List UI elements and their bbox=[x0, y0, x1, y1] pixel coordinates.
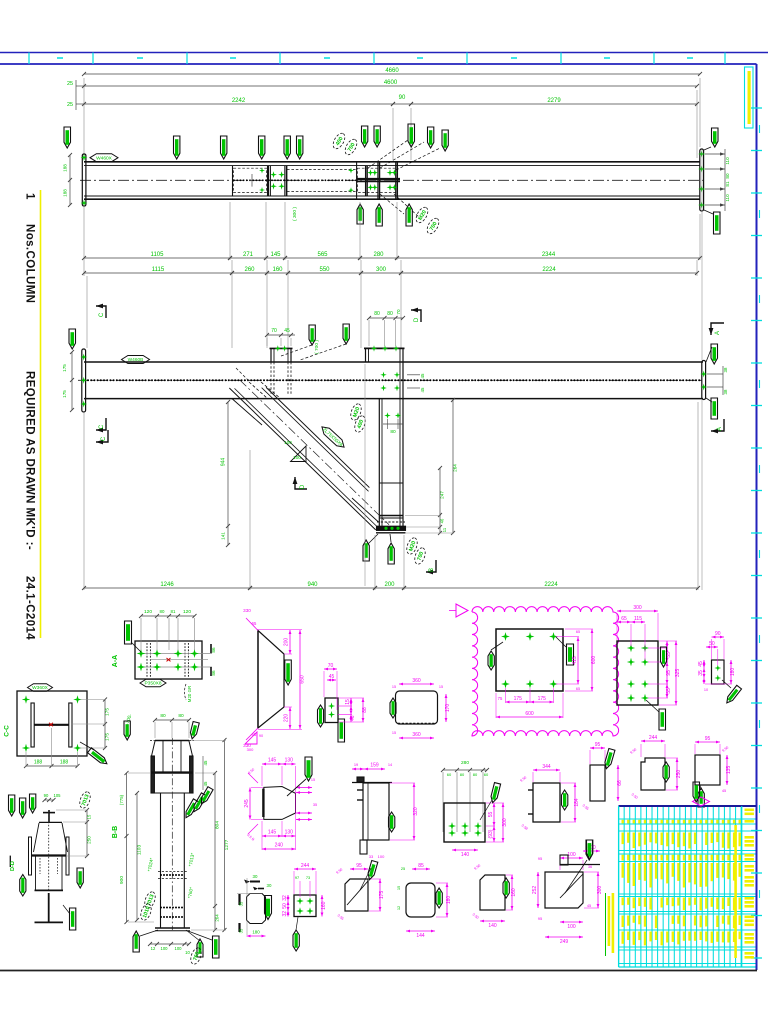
view2 beam centerline with bolts bbox=[78, 379, 706, 381]
detail A-A right dims 86 86 bbox=[210, 644, 212, 653]
svg-text:45: 45 bbox=[329, 674, 335, 680]
detail small plate flag bbox=[698, 788, 704, 807]
svg-text:35: 35 bbox=[313, 803, 317, 807]
svg-text:2224: 2224 bbox=[542, 267, 556, 273]
svg-text:900: 900 bbox=[119, 876, 125, 884]
svg-text:55: 55 bbox=[666, 688, 672, 694]
svg-text:80: 80 bbox=[374, 311, 380, 317]
svg-text:110: 110 bbox=[725, 157, 730, 165]
svg-text:600: 600 bbox=[525, 711, 534, 717]
view1 zone C leader dashed lines bbox=[368, 140, 408, 168]
svg-text:2344: 2344 bbox=[542, 252, 556, 258]
svg-text:80: 80 bbox=[390, 429, 396, 435]
view2 brace balloon bbox=[319, 424, 347, 450]
view2 stub2 column top bbox=[365, 348, 367, 362]
view1 bottom dim row1 bbox=[83, 205, 85, 260]
svg-text:( 700 ): ( 700 ) bbox=[314, 340, 320, 354]
svg-text:(775): (775) bbox=[119, 794, 124, 805]
detail BB right dims 15 250 bbox=[86, 810, 88, 856]
svg-text:60: 60 bbox=[484, 772, 489, 777]
svg-text:65: 65 bbox=[576, 687, 580, 691]
svg-text:100: 100 bbox=[161, 946, 169, 951]
view1 bottom dim row2 bbox=[83, 260, 85, 276]
svg-text:360: 360 bbox=[412, 732, 421, 738]
view2 column bolts near centerline bbox=[380, 372, 386, 378]
svg-text:264: 264 bbox=[215, 914, 220, 922]
view2 column base leaders and flags bbox=[368, 534, 378, 544]
svg-text:550: 550 bbox=[319, 267, 330, 273]
detail BB flags right bbox=[77, 868, 83, 888]
svg-text:P350X8: P350X8 bbox=[144, 681, 161, 687]
detail base plan flag bbox=[490, 783, 501, 804]
svg-text:145: 145 bbox=[268, 830, 277, 836]
svg-text:100: 100 bbox=[567, 924, 576, 930]
detail C-C balloon bbox=[28, 684, 53, 692]
svg-text:100: 100 bbox=[567, 852, 576, 858]
detail small plate right bbox=[695, 755, 720, 785]
detail C-C bottom dims 188 188 bbox=[26, 765, 78, 767]
view2 right end dims 38 38 bbox=[707, 373, 723, 375]
detail C-C flag diagonal bbox=[88, 748, 109, 767]
detail clip dims bbox=[712, 636, 725, 638]
detail column funnel taper bbox=[152, 741, 156, 756]
svg-text:180: 180 bbox=[730, 668, 736, 677]
svg-text:30: 30 bbox=[267, 883, 272, 888]
detail base plan plate bbox=[444, 803, 485, 842]
svg-text:15: 15 bbox=[87, 814, 92, 819]
detail big square plate bbox=[545, 872, 583, 908]
svg-text:145: 145 bbox=[270, 252, 281, 258]
view1 left small dims 25 25 bbox=[76, 85, 84, 87]
detail A-A top dims 120 80 81 120 bbox=[141, 615, 195, 617]
svg-text:REQUIRED AS DRAWN MK'D :-: REQUIRED AS DRAWN MK'D :- bbox=[24, 371, 36, 550]
table left border bbox=[618, 806, 620, 967]
view1 beam bottom flange bbox=[84, 195, 700, 197]
svg-text:160: 160 bbox=[272, 267, 283, 273]
svg-text:130: 130 bbox=[285, 758, 294, 764]
detail fin plate bbox=[533, 783, 560, 822]
svg-text:70: 70 bbox=[396, 309, 401, 315]
detail stiffener flag left bbox=[318, 705, 324, 727]
detail C-C right dims 175 175 bbox=[104, 700, 106, 749]
detail round plate flag bbox=[436, 888, 442, 908]
detail notch plate flag bbox=[663, 762, 669, 782]
svg-text:45: 45 bbox=[284, 328, 290, 334]
svg-text:B-B: B-B bbox=[112, 826, 119, 838]
detail A-A flag bbox=[125, 621, 132, 644]
svg-text:50: 50 bbox=[709, 641, 715, 647]
svg-text:180: 180 bbox=[252, 930, 260, 935]
svg-text:25: 25 bbox=[67, 102, 73, 108]
svg-text:145: 145 bbox=[268, 758, 277, 764]
detail splice plate rounded bbox=[396, 691, 438, 724]
view2 section D mark bottom bbox=[295, 477, 307, 489]
svg-text:30: 30 bbox=[253, 874, 258, 879]
top-right cyan revision box bbox=[745, 67, 754, 128]
detail octagon flag bbox=[265, 896, 272, 920]
detail clip flag diagonal bbox=[724, 685, 741, 704]
svg-text:D-D: D-D bbox=[10, 861, 16, 871]
svg-text:10: 10 bbox=[704, 688, 708, 692]
detail cloud magenta dims bottom bbox=[506, 701, 531, 703]
view1 top dimension 4660 bbox=[83, 78, 85, 160]
svg-text:60: 60 bbox=[447, 772, 452, 777]
detail channel top plate bbox=[357, 777, 364, 782]
view1 top dimension 4600 bbox=[696, 90, 698, 158]
view1 beam centerline bbox=[80, 179, 704, 181]
svg-text:45: 45 bbox=[698, 661, 704, 667]
view1 left flag bbox=[64, 127, 71, 148]
svg-text:100: 100 bbox=[293, 455, 301, 460]
svg-text:B: B bbox=[429, 568, 435, 572]
svg-text:260: 260 bbox=[244, 267, 255, 273]
sheet top fold strip line lower / frame top border bbox=[0, 63, 757, 65]
detail cloud revision border bbox=[472, 607, 619, 736]
view2 column bolts row 80 bbox=[384, 412, 390, 418]
svg-text:45: 45 bbox=[203, 781, 208, 786]
svg-text:188: 188 bbox=[60, 760, 69, 766]
detail column top dims 80 80 bbox=[155, 719, 189, 721]
svg-text:81: 81 bbox=[171, 609, 176, 614]
svg-text:184: 184 bbox=[574, 798, 580, 807]
svg-text:175: 175 bbox=[514, 696, 523, 702]
svg-text:97: 97 bbox=[295, 875, 299, 880]
detail BB flags left bbox=[9, 795, 15, 816]
svg-text:45: 45 bbox=[420, 387, 425, 392]
svg-text:80: 80 bbox=[473, 772, 478, 777]
detail hexagon dims top bbox=[262, 763, 282, 765]
svg-text:141: 141 bbox=[221, 532, 226, 540]
svg-text:244: 244 bbox=[301, 863, 310, 869]
svg-text:247: 247 bbox=[440, 491, 445, 499]
view2 diagonal brace bbox=[266, 387, 369, 487]
view2 stub1 channel on top flange bbox=[270, 348, 272, 362]
view1 right end dims 110 80 81 110 bbox=[705, 153, 725, 155]
svg-text:35: 35 bbox=[698, 670, 704, 676]
svg-text:2279: 2279 bbox=[547, 98, 561, 104]
svg-text:M20 GR: M20 GR bbox=[187, 686, 192, 702]
fold strip cyan dividers bbox=[28, 53, 30, 65]
svg-text:65: 65 bbox=[576, 630, 580, 634]
view1 beam top flange bbox=[84, 161, 700, 163]
view2 left vertical dims 175 175 bbox=[71, 352, 73, 410]
svg-text:81: 81 bbox=[725, 181, 730, 187]
detail cloud magenta dims right bbox=[577, 637, 579, 684]
svg-text:650: 650 bbox=[300, 675, 306, 684]
svg-text:200: 200 bbox=[284, 638, 290, 647]
detail BB dashed callout bbox=[78, 790, 92, 809]
svg-text:300: 300 bbox=[502, 818, 508, 827]
svg-text:130: 130 bbox=[285, 830, 294, 836]
svg-text:245: 245 bbox=[244, 799, 250, 808]
svg-text:120: 120 bbox=[183, 609, 191, 615]
svg-text:300: 300 bbox=[376, 267, 387, 273]
svg-text:15: 15 bbox=[392, 685, 396, 689]
svg-text:170: 170 bbox=[445, 704, 451, 713]
svg-text:1103: 1103 bbox=[137, 845, 143, 856]
svg-text:25: 25 bbox=[67, 81, 73, 87]
svg-text:50: 50 bbox=[282, 903, 288, 909]
detail A-A bolts bbox=[137, 649, 146, 658]
detail column M20 flags right bbox=[183, 799, 198, 819]
svg-text:100: 100 bbox=[284, 440, 292, 445]
detail cloud plate rect bbox=[496, 629, 563, 691]
svg-text:1: 1 bbox=[24, 193, 36, 200]
svg-text:45: 45 bbox=[722, 788, 726, 793]
svg-text:600: 600 bbox=[591, 656, 597, 665]
detail hexagon 9.50 notes bbox=[248, 773, 258, 783]
view1 balloon W460X bbox=[90, 154, 118, 162]
detail end plate flag bottom bbox=[659, 709, 666, 730]
detail stiffener plate small bbox=[325, 698, 338, 723]
view2 beam bottom flange bbox=[84, 398, 703, 400]
svg-text:Nos.COLUMN: Nos.COLUMN bbox=[24, 224, 36, 303]
sheet bottom border line bbox=[0, 970, 757, 972]
svg-text:160: 160 bbox=[511, 888, 517, 897]
view1 connection zone A dashed shear plate bbox=[232, 166, 234, 196]
detail corner cut plate bbox=[480, 875, 505, 910]
svg-text:95: 95 bbox=[356, 863, 362, 869]
svg-text:C: C bbox=[99, 312, 105, 317]
svg-text:300: 300 bbox=[247, 747, 254, 752]
table vertical grid bbox=[618, 807, 620, 967]
detail column bottom flags bbox=[133, 931, 139, 952]
svg-text:200: 200 bbox=[384, 582, 395, 588]
svg-text:95: 95 bbox=[538, 856, 543, 861]
detail base plan dims bbox=[443, 769, 487, 771]
view2 left flag bbox=[69, 329, 76, 349]
detail base plan verticals bbox=[442, 772, 444, 832]
svg-text:140: 140 bbox=[488, 923, 497, 929]
svg-text:264: 264 bbox=[453, 464, 458, 472]
detail column right dims bbox=[214, 773, 216, 930]
view1 left vertical dim 188 188 bbox=[69, 155, 71, 205]
svg-text:175: 175 bbox=[105, 733, 111, 741]
detail stiffener flag bottom bbox=[338, 719, 345, 742]
svg-text:46: 46 bbox=[350, 715, 356, 721]
detail cloud plate bolts bbox=[501, 632, 510, 641]
svg-text:70: 70 bbox=[271, 328, 277, 334]
view2 slope triangle 100 100 bbox=[291, 446, 307, 462]
svg-text:C: C bbox=[101, 436, 107, 441]
detail stiff plate dims bbox=[294, 868, 316, 870]
svg-text:415: 415 bbox=[572, 656, 578, 665]
detail column flag top right bbox=[189, 721, 199, 739]
svg-text:1246: 1246 bbox=[160, 582, 174, 588]
svg-text:159: 159 bbox=[370, 763, 379, 769]
svg-text:88: 88 bbox=[362, 707, 368, 713]
svg-text:90: 90 bbox=[259, 734, 263, 738]
detail column left dims bbox=[126, 773, 128, 922]
view2 gray extension right end bbox=[701, 150, 703, 360]
svg-text:175: 175 bbox=[379, 891, 385, 900]
sheet top fold strip line upper bbox=[0, 52, 768, 54]
svg-text:95: 95 bbox=[666, 670, 672, 676]
view1 dims 2242 90 2279 bbox=[392, 108, 394, 160]
view1 flags above beam bbox=[174, 136, 180, 159]
svg-text:944: 944 bbox=[221, 458, 227, 467]
svg-text:244: 244 bbox=[649, 735, 658, 741]
table long vertical yellow text column bbox=[734, 825, 737, 958]
detail BB I section bbox=[29, 837, 32, 875]
table right column yellow texts bbox=[745, 809, 754, 812]
svg-text:W360X: W360X bbox=[32, 685, 49, 691]
view2 balloon W460B bbox=[122, 356, 150, 364]
view2 right end flags bbox=[711, 344, 718, 364]
detail channel left ticks bbox=[357, 789, 363, 791]
svg-text:66: 66 bbox=[617, 780, 623, 786]
detail column haunch side plates bbox=[151, 756, 154, 793]
detail BB bottom I beam bbox=[48, 893, 50, 922]
detail column shaft bbox=[160, 793, 162, 928]
detail channel body bbox=[363, 783, 389, 840]
detail C-C I-beam flanges bbox=[31, 703, 34, 747]
svg-text:90: 90 bbox=[715, 631, 721, 637]
svg-text:240: 240 bbox=[275, 843, 284, 849]
table top border navy bbox=[619, 805, 757, 807]
svg-text:19: 19 bbox=[354, 762, 358, 767]
detail plate left of table flag bbox=[587, 840, 593, 859]
svg-text:80: 80 bbox=[178, 713, 184, 719]
svg-text:160: 160 bbox=[321, 901, 327, 910]
detail fin plate dims bbox=[533, 769, 560, 771]
svg-text:55: 55 bbox=[488, 812, 494, 818]
svg-text:24.1-C2014: 24.1-C2014 bbox=[24, 576, 36, 640]
detail base plan right dims bbox=[493, 803, 495, 826]
view2 stub1 dims 70 45 bbox=[267, 334, 295, 336]
svg-text:C-C: C-C bbox=[4, 725, 11, 737]
detail C-C corner bolts bbox=[22, 695, 30, 703]
svg-text:300: 300 bbox=[597, 886, 603, 895]
svg-text:35: 35 bbox=[239, 901, 244, 906]
svg-text:940: 940 bbox=[307, 582, 318, 588]
view2 column base plates bbox=[379, 515, 403, 517]
view2 section B mark bottom bbox=[426, 560, 436, 572]
svg-text:70: 70 bbox=[328, 663, 334, 669]
detail cloud flag right bbox=[567, 644, 574, 665]
detail column bottom dims 12 100 100 10 bbox=[150, 943, 189, 945]
svg-text:1105: 1105 bbox=[151, 252, 165, 258]
svg-text:220: 220 bbox=[284, 714, 290, 723]
svg-text:115: 115 bbox=[634, 616, 642, 622]
svg-text:804: 804 bbox=[215, 821, 221, 829]
svg-text:85: 85 bbox=[418, 863, 424, 869]
detail big square flag bbox=[586, 840, 593, 860]
svg-text:38: 38 bbox=[723, 367, 728, 372]
svg-text:110: 110 bbox=[725, 194, 730, 202]
table horizontal lines bbox=[619, 818, 756, 820]
svg-text:90: 90 bbox=[44, 793, 49, 798]
svg-text:300: 300 bbox=[633, 605, 642, 611]
detail wedge flag bbox=[367, 860, 378, 880]
svg-text:325: 325 bbox=[675, 669, 681, 678]
view2 column below beam bbox=[378, 399, 380, 527]
view2 M20 dashed callouts left of column bbox=[349, 402, 363, 421]
svg-text:32: 32 bbox=[282, 911, 288, 917]
svg-text:144: 144 bbox=[416, 933, 425, 939]
svg-text:15: 15 bbox=[392, 731, 396, 735]
detail splice plate flag bbox=[390, 698, 396, 718]
svg-text:100: 100 bbox=[378, 854, 385, 859]
view2 extension line x365 bbox=[364, 364, 366, 586]
detail clip plate bbox=[712, 660, 725, 684]
left margin yellow rule bbox=[40, 190, 42, 638]
svg-text:12: 12 bbox=[396, 906, 401, 910]
detail gusset plate outline bbox=[258, 631, 284, 729]
detail BB left flag bbox=[20, 875, 26, 897]
svg-text:105: 105 bbox=[54, 793, 62, 798]
svg-text:86: 86 bbox=[211, 647, 216, 653]
detail plate left of table mag dims bbox=[583, 850, 600, 852]
detail narrow plate flag bbox=[603, 749, 615, 770]
svg-text:188: 188 bbox=[63, 189, 68, 197]
detail gusset flag bbox=[285, 660, 292, 685]
detail base plan bolts bbox=[448, 822, 456, 830]
table yellow text bands bbox=[622, 820, 624, 824]
view1 left end plate bbox=[82, 154, 86, 206]
svg-text:280: 280 bbox=[461, 760, 469, 766]
svg-text:360: 360 bbox=[412, 678, 421, 684]
detail BB D-D label bbox=[9, 856, 11, 867]
svg-text:A: A bbox=[717, 427, 723, 431]
svg-text:4600: 4600 bbox=[384, 80, 398, 86]
table top magenta diamond bbox=[693, 797, 710, 806]
view2 brace dashed through beam web bbox=[249, 382, 267, 398]
svg-text:90: 90 bbox=[399, 95, 406, 101]
detail column shaft bolt rows bbox=[160, 874, 162, 876]
fold strip cyan cell marks bbox=[57, 57, 63, 59]
detail notch plate bbox=[641, 758, 665, 790]
svg-text:1115: 1115 bbox=[152, 267, 165, 273]
svg-text:35: 35 bbox=[239, 928, 244, 933]
svg-text:188: 188 bbox=[34, 760, 43, 766]
detail column base plate bbox=[155, 927, 190, 929]
detail splice plate magenta dims bbox=[399, 683, 434, 685]
detail BB center dotted bbox=[48, 812, 50, 890]
detail fin plate flag bbox=[562, 790, 568, 810]
svg-text:175: 175 bbox=[62, 390, 67, 398]
detail channel flag bbox=[389, 812, 395, 832]
view2 brace gusset lines bbox=[232, 399, 262, 425]
svg-text:80: 80 bbox=[387, 311, 393, 317]
detail channel right dim bbox=[413, 783, 415, 840]
view1 flags below beam zone C bbox=[357, 204, 363, 224]
detail gusset corner diagonals 330 bbox=[246, 618, 258, 631]
detail C-C outer plate bbox=[17, 691, 87, 756]
detail hexagon gusset plate bbox=[264, 787, 296, 820]
view2 extension lines from row2 bbox=[86, 276, 88, 348]
svg-text:175: 175 bbox=[538, 696, 547, 702]
svg-text:188: 188 bbox=[63, 164, 68, 172]
detail end plate dims right bbox=[666, 641, 668, 648]
view2 stub2 dims 80 80 70 bbox=[369, 317, 403, 319]
frame right border bbox=[756, 64, 758, 970]
detail end plate flag right bbox=[661, 647, 667, 667]
svg-text:32: 32 bbox=[282, 895, 288, 901]
svg-text:25: 25 bbox=[401, 866, 405, 871]
detail channel dims top bbox=[352, 768, 364, 770]
view1 right end plate bbox=[700, 149, 704, 211]
view1 right end flags bbox=[712, 128, 719, 147]
svg-text:46: 46 bbox=[440, 518, 445, 523]
svg-text:15: 15 bbox=[345, 699, 351, 705]
svg-text:175: 175 bbox=[62, 364, 67, 372]
svg-text:D: D bbox=[300, 484, 306, 489]
detail column haunch flange line bbox=[151, 771, 193, 773]
detail BB funnel bbox=[39, 821, 62, 823]
svg-text:( 300 ): ( 300 ) bbox=[292, 207, 298, 221]
detail column 45 45 dims bbox=[202, 756, 204, 790]
